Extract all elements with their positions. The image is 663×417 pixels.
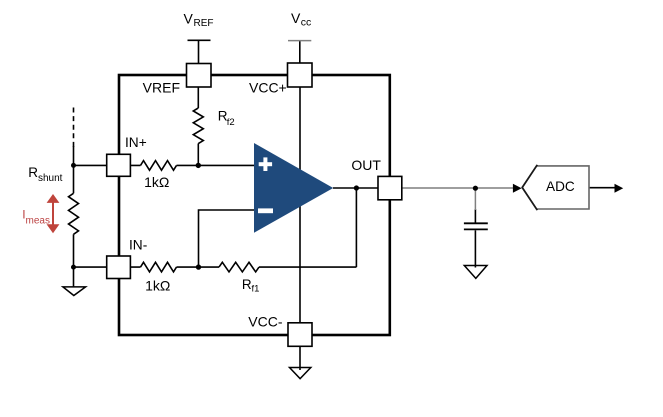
svg-text:IN-: IN- bbox=[129, 238, 147, 253]
svg-text:IN+: IN+ bbox=[125, 135, 147, 150]
svg-text:V: V bbox=[291, 10, 301, 26]
svg-text:cc: cc bbox=[301, 17, 312, 29]
svg-text:REF: REF bbox=[194, 18, 214, 29]
svg-text:ADC: ADC bbox=[546, 179, 575, 194]
svg-text:OUT: OUT bbox=[351, 157, 381, 173]
svg-text:1kΩ: 1kΩ bbox=[144, 174, 169, 190]
svg-text:1kΩ: 1kΩ bbox=[145, 278, 170, 294]
svg-text:VCC+: VCC+ bbox=[249, 80, 287, 96]
svg-text:shunt: shunt bbox=[38, 173, 63, 184]
svg-text:meas: meas bbox=[26, 215, 50, 226]
svg-text:f1: f1 bbox=[252, 284, 260, 295]
svg-text:f2: f2 bbox=[227, 117, 235, 128]
svg-text:R: R bbox=[242, 277, 252, 292]
svg-text:VCC-: VCC- bbox=[248, 314, 283, 330]
svg-text:VREF: VREF bbox=[143, 80, 180, 96]
svg-text:R: R bbox=[28, 165, 38, 180]
svg-text:V: V bbox=[184, 10, 194, 26]
